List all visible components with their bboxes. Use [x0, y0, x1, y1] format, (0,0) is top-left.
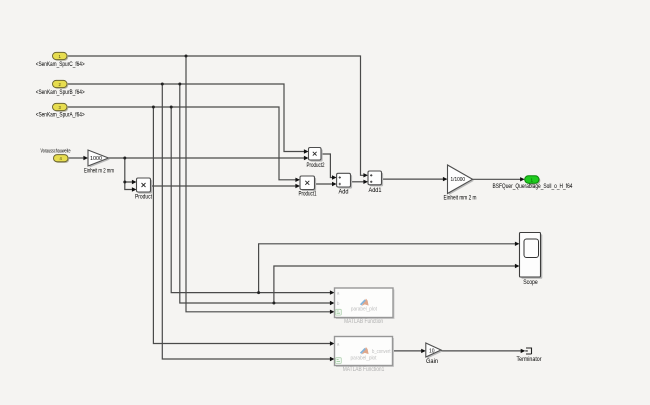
wire: MATLAB Function1 output to Gain — [393, 350, 422, 352]
svg-text:a: a — [337, 292, 340, 297]
svg-text:Scope: Scope — [523, 280, 538, 286]
outport 1 — [525, 176, 541, 185]
svg-text:1000: 1000 — [90, 156, 102, 162]
wire: gain 1000 output to Product2 in2 — [109, 157, 305, 159]
junction dots — [123, 55, 275, 305]
terminator — [525, 348, 531, 355]
inport 1 — [53, 52, 69, 60]
wire: branch up to Scope in1 — [259, 244, 515, 293]
wire: Add1 output to gain 1/1000 — [382, 178, 444, 180]
wire: Inport2 branch to MATLAB Function1 in2 — [162, 84, 330, 359]
svg-text:Vorausschauweite: Vorausschauweite — [41, 148, 71, 154]
arrowheads — [83, 149, 525, 361]
svg-text:<SenKam_SpurB_f64>: <SenKam_SpurB_f64> — [36, 90, 85, 96]
wire: Inport3 branch to MATLAB Function in a — [171, 107, 330, 293]
function port icon — [336, 358, 342, 364]
wire: Product output to Product1 in2 — [151, 185, 296, 187]
svg-text:<SenKam_SpurC_f64>: <SenKam_SpurC_f64> — [36, 62, 85, 68]
svg-text:Add: Add — [339, 190, 349, 196]
product Product — [137, 178, 153, 194]
wire: Add output to Add1 in2 — [351, 181, 364, 183]
svg-text:parabel_plot: parabel_plot — [351, 355, 377, 361]
inport 3 — [53, 103, 69, 111]
wire: branch up to Scope in2 — [274, 266, 515, 303]
wire: Inport1 to Add1 in1 — [67, 56, 364, 175]
svg-text:MATLAB Function: MATLAB Function — [344, 319, 383, 325]
wire: Inport1 branch down to MATLAB Function in3 — [186, 56, 330, 312]
svg-text:1/1000: 1/1000 — [451, 177, 466, 183]
wire: Inport4 to gain Einheit m 2 mm — [68, 157, 84, 159]
wire: Product1 output to Add in2 — [315, 183, 333, 185]
wire: Product2 output to Add in1 — [321, 154, 332, 178]
gain Einheit m 2 mm (1000) — [88, 150, 110, 168]
gain Einheit mm 2 m (1/1000) — [448, 165, 475, 195]
svg-text:Add1: Add1 — [369, 188, 383, 194]
svg-text:b_convert: b_convert — [372, 349, 391, 355]
inport 2 — [53, 80, 69, 88]
svg-text:Einheit m 2 mm: Einheit m 2 mm — [84, 168, 114, 174]
MATLAB Function block — [335, 288, 395, 319]
svg-text:10: 10 — [429, 348, 435, 354]
svg-text:BSFQuer_Querablage_Soll_o_H_f6: BSFQuer_Querablage_Soll_o_H_f64 — [493, 184, 574, 190]
gain Gain (10) — [426, 343, 443, 359]
MATLAB logo — [362, 347, 369, 354]
wire: Inport2 branch to MATLAB Function in b — [180, 84, 330, 303]
svg-text:Einheit mm 2 m: Einheit mm 2 m — [444, 195, 477, 201]
wire: branch down to Product in1 and in2 — [125, 158, 133, 190]
product Product1 — [300, 176, 316, 191]
svg-text:Gain: Gain — [426, 359, 438, 365]
MATLAB Function1 block — [335, 337, 395, 368]
svg-text:Product1: Product1 — [299, 192, 317, 198]
svg-text:<SenKam_SpurA_f64>: <SenKam_SpurA_f64> — [36, 113, 85, 119]
wire: Inport2 to Product2 in1 — [67, 84, 304, 152]
adder Add1 — [368, 171, 383, 186]
inport 4 — [54, 155, 70, 163]
svg-text:Product2: Product2 — [307, 163, 325, 169]
svg-text:Product: Product — [135, 194, 152, 200]
svg-text:b: b — [337, 301, 340, 307]
wire: Gain output to Terminator — [441, 350, 521, 352]
product Product2 — [309, 148, 323, 162]
svg-text:parabel_plot: parabel_plot — [351, 306, 377, 312]
adder Add — [337, 173, 353, 188]
wire: gain 1/1000 output to Outport1 — [473, 178, 521, 180]
scope Scope — [520, 233, 543, 279]
MATLAB logo — [362, 299, 369, 306]
svg-text:MATLAB Function1: MATLAB Function1 — [343, 367, 385, 373]
wire: Inport3 to Product1 in1 — [67, 107, 296, 180]
wire: Inport3 branch to MATLAB Function1 in a — [153, 107, 330, 344]
function port icon — [336, 309, 342, 315]
svg-text:a: a — [337, 343, 340, 348]
svg-text:Terminator: Terminator — [517, 357, 542, 363]
